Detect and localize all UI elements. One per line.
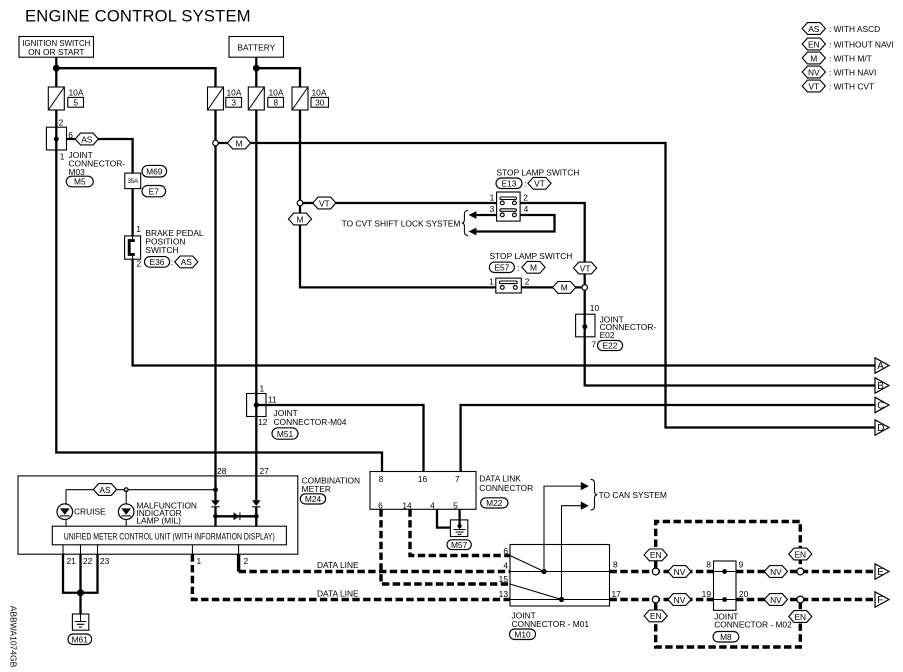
svg-text:4: 4 bbox=[524, 204, 529, 214]
svg-text:10A: 10A bbox=[69, 88, 84, 98]
wire M04 pin 11 to data link connector pin 16 bbox=[256, 405, 423, 472]
wire 27 continues to UMCU bbox=[255, 507, 257, 526]
svg-text:: WITH M/T: : WITH M/T bbox=[829, 53, 872, 63]
legend EN bbox=[802, 38, 894, 50]
arrow E bbox=[875, 564, 889, 579]
svg-text:DATA LINE: DATA LINE bbox=[317, 560, 359, 570]
svg-text:9: 9 bbox=[739, 560, 744, 570]
svg-text:M69: M69 bbox=[146, 167, 163, 177]
node option circle VT/M join bbox=[582, 285, 588, 291]
svg-text:M: M bbox=[561, 283, 568, 293]
wire DLC pin 4 to ground bbox=[437, 509, 450, 527]
svg-text:4: 4 bbox=[430, 501, 435, 511]
svg-text:CONNECTOR - M02: CONNECTOR - M02 bbox=[714, 620, 792, 630]
svg-text:STOP LAMP SWITCH: STOP LAMP SWITCH bbox=[490, 251, 573, 261]
node option circle on fuse 30 wire bbox=[297, 200, 303, 206]
svg-text:UNIFIED METER CONTROL UNIT (WI: UNIFIED METER CONTROL UNIT (WITH INFORMA… bbox=[64, 532, 275, 542]
svg-text:1: 1 bbox=[60, 151, 65, 161]
svg-text:1: 1 bbox=[260, 384, 265, 394]
wire M bus from circle right, down right side, to arrow D bbox=[218, 143, 875, 428]
svg-text:VT: VT bbox=[319, 198, 330, 208]
svg-text:EN: EN bbox=[650, 611, 662, 621]
svg-text:TO CVT SHIFT LOCK SYSTEM: TO CVT SHIFT LOCK SYSTEM bbox=[342, 219, 461, 229]
wire battery down bbox=[255, 57, 257, 87]
svg-text:1: 1 bbox=[490, 192, 495, 202]
svg-text:27: 27 bbox=[260, 466, 270, 476]
svg-text:M61: M61 bbox=[72, 635, 89, 645]
wire M03 pin 1 down, across, to data link connector pin 8 bbox=[56, 110, 382, 472]
M01 internal diagonal pin15 bbox=[510, 584, 562, 600]
svg-text:STOP LAMP SWITCH: STOP LAMP SWITCH bbox=[497, 168, 580, 178]
svg-text:1: 1 bbox=[489, 276, 494, 286]
pill M57 bbox=[447, 540, 471, 550]
brace TO CAN SYSTEM bbox=[591, 479, 598, 510]
wire fuse 3 down to combination meter pin 28 bbox=[214, 110, 216, 500]
wire M branch: fuse 30 down to stop lamp switch E57 pin 1 bbox=[300, 203, 496, 287]
svg-text:M57: M57 bbox=[451, 540, 468, 550]
svg-text:B: B bbox=[877, 381, 884, 392]
combination meter box M24 bbox=[18, 466, 360, 554]
wire cross link with diode bbox=[216, 515, 257, 517]
arrow D bbox=[875, 420, 889, 435]
node option circle on fuse 3 wire bbox=[213, 140, 219, 146]
svg-text:CONNECTOR - M01: CONNECTOR - M01 bbox=[512, 619, 590, 629]
svg-text:NV: NV bbox=[808, 67, 820, 77]
svg-text:CONNECTOR: CONNECTOR bbox=[479, 483, 533, 493]
box BATTERY bbox=[229, 37, 284, 58]
arrow A bbox=[875, 358, 889, 373]
arrow CAN 1 bbox=[581, 482, 589, 490]
stop lamp switch E13 bbox=[496, 168, 579, 190]
svg-text:M51: M51 bbox=[277, 429, 294, 439]
svg-text:2: 2 bbox=[59, 118, 64, 128]
svg-text:2: 2 bbox=[525, 276, 530, 286]
arrow F bbox=[875, 592, 889, 607]
node dot wire28/link bbox=[213, 514, 218, 519]
hexagon EN top right bbox=[789, 548, 812, 560]
wire M03 pin 6 to AS and down to fusible link bbox=[67, 139, 133, 173]
pill M8 bbox=[713, 632, 739, 643]
meter internal: AS line to wire 28 bbox=[66, 489, 216, 491]
svg-text:ABBWA1074GB: ABBWA1074GB bbox=[9, 606, 19, 668]
brace left for CVT arrows bbox=[462, 210, 469, 235]
node junction dot ground bbox=[77, 589, 84, 596]
svg-text:3: 3 bbox=[231, 98, 236, 108]
svg-text:15: 15 bbox=[499, 574, 509, 584]
svg-text:19: 19 bbox=[702, 589, 712, 599]
svg-text:AS: AS bbox=[99, 485, 111, 495]
wire E57 pin 2 to M hexagon and option circle bbox=[515, 286, 582, 288]
svg-text:M22: M22 bbox=[486, 498, 503, 508]
joint connector M02 box bbox=[702, 560, 792, 630]
svg-text:E: E bbox=[877, 567, 884, 578]
svg-text:2: 2 bbox=[137, 258, 142, 268]
wire DLC pin 5 to ground bbox=[458, 509, 460, 526]
wire to CAN arrow 1 bbox=[544, 486, 581, 571]
wire dashed M01 pin 17 to M02 bbox=[610, 598, 714, 601]
svg-text:11: 11 bbox=[268, 395, 277, 405]
svg-text::: : bbox=[171, 257, 173, 267]
svg-text:8: 8 bbox=[706, 560, 711, 570]
svg-text:10A: 10A bbox=[227, 88, 242, 98]
svg-text:M: M bbox=[236, 138, 243, 148]
wire ignition switch to junction bbox=[55, 57, 57, 87]
svg-text:2: 2 bbox=[244, 556, 249, 566]
arrow CAN 2 bbox=[581, 502, 589, 510]
wire E13 pin 3 to CVT arrow bbox=[476, 214, 502, 216]
svg-text:10: 10 bbox=[590, 303, 600, 313]
hexagon M (E57 branch) bbox=[553, 282, 576, 294]
pill M51 bbox=[272, 428, 298, 439]
svg-text:10A: 10A bbox=[312, 88, 327, 98]
svg-text:M10: M10 bbox=[514, 630, 531, 640]
svg-text:VT: VT bbox=[580, 263, 591, 273]
svg-text:6: 6 bbox=[503, 546, 508, 556]
lamp CRUISE bbox=[57, 504, 106, 520]
hexagon EN bottom left bbox=[644, 610, 667, 622]
svg-text:M: M bbox=[297, 214, 304, 224]
node circle E line left bbox=[652, 568, 659, 575]
pin stubs below UMCU bbox=[63, 545, 239, 554]
wire fusible link to brake pedal position switch bbox=[131, 189, 133, 236]
hexagon AS (meter) bbox=[93, 484, 116, 496]
arrow C bbox=[875, 397, 889, 412]
node dot on wire 28 bbox=[213, 487, 218, 492]
hexagon EN bottom right bbox=[789, 611, 812, 623]
legend NV bbox=[802, 66, 876, 78]
wire E13 pin 4 loop to CVT arrow bbox=[476, 215, 555, 232]
svg-text:: WITH CVT: : WITH CVT bbox=[829, 81, 874, 91]
svg-text:EN: EN bbox=[794, 612, 806, 622]
wire option circle down through joint connector E02 to arrow B bbox=[585, 290, 875, 385]
wire dashed meter pin 2 to M01 pin 4 bbox=[239, 570, 510, 573]
fuse 10A 5 bbox=[48, 87, 84, 110]
hexagon M (fuse 3 bus) bbox=[227, 137, 250, 149]
wire VT bus circle to stop lamp switch E13 pin 1 bbox=[303, 202, 497, 204]
wire C: data link connector pin 7 up and right to arrow C bbox=[461, 405, 875, 472]
wire dashed meter pin 1 to M01 pin 13 bbox=[192, 554, 510, 599]
wire dashed EN bypass top bbox=[656, 522, 801, 569]
svg-text:23: 23 bbox=[100, 556, 110, 566]
svg-text:3: 3 bbox=[490, 204, 495, 214]
wire dashed M02 pin 9 to arrow E bbox=[736, 570, 875, 573]
diode on wire 27 bbox=[252, 500, 260, 507]
hexagon M (fuse 30 branch) bbox=[288, 213, 311, 225]
diode on cross link bbox=[234, 512, 240, 520]
svg-text:VT: VT bbox=[534, 179, 545, 189]
data link connector M22 box bbox=[370, 472, 533, 511]
wire dashed EN bypass bottom bbox=[656, 603, 801, 648]
lamp MIL bbox=[118, 500, 197, 525]
svg-text:5: 5 bbox=[73, 98, 78, 108]
legend VT bbox=[802, 80, 874, 92]
svg-text:28: 28 bbox=[217, 466, 227, 476]
hexagon AS (M03 branch) bbox=[75, 133, 98, 145]
box IGNITION SWITCH ON OR START bbox=[19, 37, 94, 58]
svg-text:SWITCH: SWITCH bbox=[145, 245, 178, 255]
svg-text:A: A bbox=[877, 361, 884, 372]
svg-text:NV: NV bbox=[674, 595, 686, 605]
node dot M01 line2 bbox=[559, 597, 564, 602]
svg-text:8: 8 bbox=[379, 474, 384, 484]
svg-text:M8: M8 bbox=[720, 632, 732, 642]
arrow to CVT (pin 3) bbox=[469, 211, 477, 219]
svg-text:7: 7 bbox=[591, 340, 596, 350]
svg-text:M24: M24 bbox=[305, 494, 322, 504]
legend M bbox=[802, 52, 872, 64]
wire meter pin 22 to ground bbox=[79, 554, 81, 614]
ground M57 bbox=[450, 520, 467, 537]
svg-text:4: 4 bbox=[503, 561, 508, 571]
svg-text:CRUISE: CRUISE bbox=[74, 507, 106, 517]
svg-text:DATA LINE: DATA LINE bbox=[317, 589, 359, 599]
svg-text:NV: NV bbox=[770, 567, 782, 577]
svg-text:14: 14 bbox=[402, 501, 412, 511]
wire E13 pin 2 right, down to VT option circle bbox=[520, 203, 585, 285]
wire to CAN arrow 2 bbox=[562, 506, 582, 600]
wire dashed M02 pin 20 to arrow F bbox=[736, 598, 875, 601]
node junction dot below battery bbox=[253, 65, 260, 72]
stop lamp switch E57 bbox=[489, 251, 572, 273]
svg-text:EN: EN bbox=[808, 39, 820, 49]
svg-text:METER: METER bbox=[302, 484, 331, 494]
svg-text:CONNECTOR-M04: CONNECTOR-M04 bbox=[274, 417, 347, 427]
svg-text:C: C bbox=[877, 400, 884, 411]
svg-text:22: 22 bbox=[83, 556, 93, 566]
hexagon EN top left bbox=[644, 549, 667, 561]
wire A: brake switch pin 2 down and right to arrow A bbox=[133, 259, 875, 365]
svg-text:16: 16 bbox=[418, 474, 428, 484]
svg-text:35A: 35A bbox=[127, 178, 138, 185]
hexagon NV F left bbox=[668, 594, 691, 606]
svg-text:M: M bbox=[530, 263, 537, 273]
wire MIL lamp drop bbox=[125, 490, 127, 527]
svg-text:VT: VT bbox=[808, 81, 819, 91]
wire CRUISE lamp drop bbox=[65, 490, 67, 527]
svg-text:E02: E02 bbox=[600, 330, 615, 340]
box UNIFIED METER CONTROL UNIT bbox=[52, 526, 286, 545]
M01 internal diagonal pin6 bbox=[510, 556, 544, 572]
svg-text:E57: E57 bbox=[494, 263, 509, 273]
svg-text:13: 13 bbox=[499, 589, 509, 599]
svg-text:E7: E7 bbox=[149, 187, 160, 197]
joint connector E02 bbox=[576, 303, 657, 350]
arrow to CVT (pin 4) bbox=[469, 228, 477, 236]
node dot wire27/link bbox=[254, 514, 259, 519]
hexagon VT (fuse 30 branch) bbox=[313, 197, 336, 209]
node dot M01 line1 bbox=[541, 569, 546, 574]
pill M69 bbox=[142, 165, 167, 177]
brake pedal position switch E36 bbox=[125, 224, 204, 268]
wire fuse 30 down to VT/M split bbox=[299, 110, 301, 203]
legend AS bbox=[802, 23, 880, 35]
svg-text:NV: NV bbox=[674, 567, 686, 577]
pill E22 bbox=[598, 340, 623, 350]
hexagon VT (above option circle) bbox=[574, 262, 597, 274]
wire fuse 8 / battery down through M04 to combination meter pin 27 bbox=[255, 110, 257, 500]
hexagon NV E left bbox=[668, 566, 691, 578]
wire 28 continues to UMCU bbox=[214, 507, 216, 526]
wire meter pins 21/23 join bbox=[63, 554, 98, 593]
node small circle junction above MIL bbox=[124, 488, 128, 492]
svg-text:M5: M5 bbox=[74, 177, 86, 187]
svg-text:5: 5 bbox=[453, 501, 458, 511]
pill M10 bbox=[510, 629, 536, 640]
wire dashed M01 pin 8 to M02 bbox=[610, 570, 714, 573]
pill M22 bbox=[481, 498, 508, 508]
node circle F line left bbox=[652, 596, 659, 603]
wire bus ignition to fuse 3 bbox=[56, 68, 215, 87]
pill E36 bbox=[145, 257, 174, 268]
svg-text:: WITH ASCD: : WITH ASCD bbox=[829, 24, 880, 34]
svg-text:6: 6 bbox=[378, 501, 383, 511]
joint connector M03 bbox=[46, 118, 125, 178]
arrow B bbox=[875, 378, 889, 393]
M01 internal line pin4-pin8 bbox=[510, 571, 610, 573]
hexagon NV E right bbox=[764, 566, 787, 578]
svg-text:M: M bbox=[810, 53, 817, 63]
hexagon AS (E36) bbox=[175, 256, 198, 268]
node junction dot below ignition switch bbox=[53, 65, 60, 72]
svg-text:1: 1 bbox=[136, 224, 141, 234]
svg-text:E22: E22 bbox=[603, 341, 618, 351]
svg-text:10A: 10A bbox=[269, 88, 284, 98]
switch body E13 bbox=[490, 192, 529, 221]
svg-text:21: 21 bbox=[67, 556, 77, 566]
svg-text:AS: AS bbox=[181, 257, 193, 267]
svg-text:E36: E36 bbox=[150, 257, 165, 267]
svg-text:E13: E13 bbox=[502, 179, 517, 189]
fusible link 35A bbox=[125, 173, 141, 189]
svg-text:17: 17 bbox=[612, 589, 622, 599]
svg-text:30: 30 bbox=[315, 98, 325, 108]
svg-text:ON OR START: ON OR START bbox=[28, 47, 84, 57]
pill M24 bbox=[300, 494, 325, 504]
svg-text:ENGINE CONTROL SYSTEM: ENGINE CONTROL SYSTEM bbox=[25, 6, 251, 25]
svg-text:12: 12 bbox=[258, 417, 268, 427]
switch body E57 bbox=[489, 276, 530, 293]
wire dashed DLC pin 14 to M01 pin 6 bbox=[410, 509, 510, 555]
pill M61 bbox=[68, 634, 92, 645]
svg-text:: WITHOUT NAVI: : WITHOUT NAVI bbox=[829, 39, 894, 49]
svg-text:20: 20 bbox=[739, 589, 749, 599]
node circle E line right bbox=[797, 568, 804, 575]
joint connector M04 bbox=[247, 384, 347, 427]
svg-text::: : bbox=[524, 179, 526, 189]
svg-text:7: 7 bbox=[455, 474, 460, 484]
svg-text:AS: AS bbox=[808, 24, 820, 34]
svg-text:LAMP (MIL): LAMP (MIL) bbox=[136, 515, 181, 525]
svg-text:8: 8 bbox=[613, 560, 618, 570]
svg-text:: WITH NAVI: : WITH NAVI bbox=[829, 67, 876, 77]
svg-text:NV: NV bbox=[770, 595, 782, 605]
svg-text:BATTERY: BATTERY bbox=[237, 42, 275, 52]
svg-text:2: 2 bbox=[523, 192, 528, 202]
svg-text:EN: EN bbox=[794, 549, 806, 559]
fuse 10A 30 bbox=[292, 87, 329, 110]
wire meter pin 2 solid stub bbox=[237, 554, 240, 571]
wire dashed DLC pin 6 to M01 pin 15 bbox=[381, 509, 510, 584]
svg-text::: : bbox=[517, 263, 519, 273]
pill E7 bbox=[142, 186, 166, 197]
node circle F line right bbox=[797, 596, 804, 603]
pill M5 bbox=[66, 176, 93, 187]
svg-text:AS: AS bbox=[81, 134, 93, 144]
diode on wire 28 bbox=[211, 500, 219, 507]
joint connector M01 box bbox=[499, 545, 621, 629]
ground M61 bbox=[72, 614, 88, 630]
fuse 10A 3 bbox=[208, 87, 242, 110]
hexagon NV F right bbox=[764, 594, 787, 606]
wire bus battery to fuse 30 bbox=[256, 68, 300, 87]
fuse 10A 8 bbox=[248, 87, 284, 110]
svg-text:EN: EN bbox=[650, 550, 662, 560]
svg-text:TO CAN SYSTEM: TO CAN SYSTEM bbox=[599, 490, 667, 500]
M01 internal line pin13-pin17 bbox=[510, 599, 610, 601]
svg-text:D: D bbox=[877, 423, 884, 434]
svg-text:8: 8 bbox=[273, 98, 278, 108]
svg-text:1: 1 bbox=[197, 556, 202, 566]
svg-text:F: F bbox=[877, 595, 883, 606]
